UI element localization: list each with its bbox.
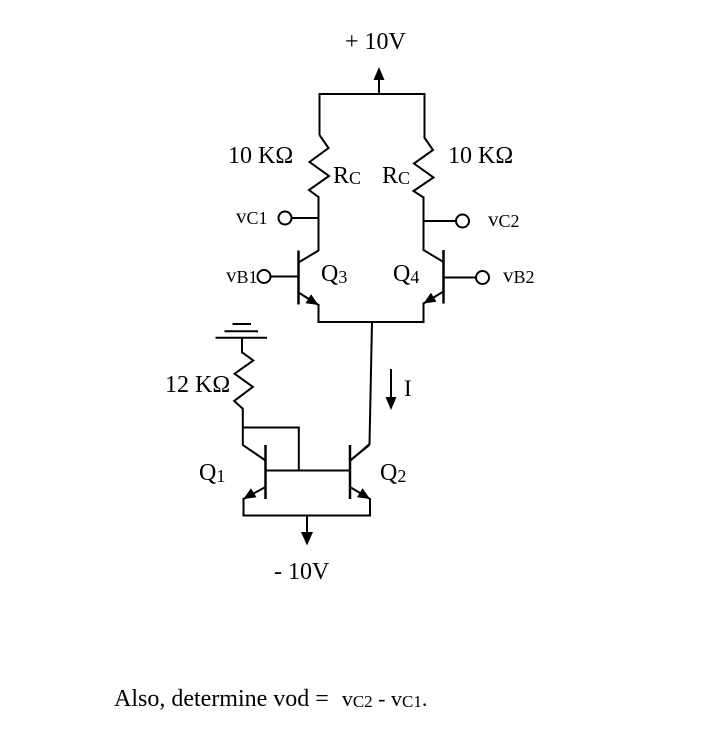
svg-text:Q3: Q3	[321, 261, 347, 287]
label Q3	[321, 261, 347, 287]
wire left collector drop	[319, 93, 321, 135]
label 12 KOhm	[165, 372, 230, 398]
transistor Q3	[299, 251, 319, 323]
label vC2	[488, 207, 520, 231]
terminal vC1 circle	[279, 212, 292, 225]
svg-text:Q2: Q2	[380, 460, 406, 486]
terminal vC2 stub	[424, 220, 457, 222]
supply arrow down -10V	[301, 516, 313, 546]
svg-text:Also, determine vod = vC2 - vC: Also, determine vod = vC2 - vC1.	[114, 686, 427, 712]
svg-text:10 KΩ: 10 KΩ	[228, 143, 293, 169]
ground	[216, 324, 268, 354]
svg-text:Q1: Q1	[199, 460, 225, 486]
wire base rail	[266, 470, 351, 472]
svg-text:I: I	[404, 376, 412, 401]
wire bottom rail	[243, 515, 372, 517]
transistor Q1	[244, 445, 266, 517]
svg-text:RC: RC	[382, 163, 410, 189]
wire left collector mid	[318, 196, 320, 251]
label Q2	[380, 460, 406, 486]
svg-text:- 10V: - 10V	[274, 559, 330, 585]
svg-text:vB2: vB2	[503, 263, 535, 287]
label Q1	[199, 460, 225, 486]
label 10 KOhm left	[228, 143, 293, 169]
label 10 KOhm right	[448, 143, 513, 169]
resistor RC left 10K	[309, 135, 329, 197]
svg-text:10 KΩ: 10 KΩ	[448, 143, 513, 169]
terminal vC1 stub	[292, 217, 319, 219]
supply label +10V	[345, 29, 407, 55]
label -10V	[274, 559, 330, 585]
resistor 12K	[234, 353, 253, 409]
supply arrow up	[374, 67, 385, 95]
wire tail vertical	[351, 322, 373, 461]
svg-text:+ 10V: + 10V	[345, 29, 407, 55]
caption	[114, 686, 427, 712]
terminal vC2 circle	[456, 215, 469, 228]
terminal vB1 stub	[271, 276, 299, 278]
label I	[404, 376, 412, 401]
label Q4	[393, 261, 419, 287]
current arrow I	[386, 369, 397, 410]
svg-text:vB1: vB1	[226, 263, 258, 287]
wire right collector drop	[424, 93, 426, 137]
label RC right	[382, 163, 410, 189]
wire top rail	[319, 93, 426, 95]
svg-text:vC1: vC1	[236, 204, 268, 228]
label vB2	[503, 263, 535, 287]
wire emitter rail	[318, 321, 425, 323]
wire jumper collector to bases	[243, 428, 299, 471]
svg-text:12 KΩ: 12 KΩ	[165, 372, 230, 398]
transistor Q4	[424, 250, 444, 322]
svg-text:Q4: Q4	[393, 261, 419, 287]
label RC left	[333, 163, 361, 189]
resistor RC right 10K	[414, 137, 434, 198]
label vC1	[236, 204, 268, 228]
wire resistor to Q1 collector	[243, 408, 266, 461]
terminal vB2 stub	[444, 277, 477, 279]
transistor Q2	[350, 445, 370, 517]
terminal vB2 circle	[476, 271, 489, 284]
svg-text:RC: RC	[333, 163, 361, 189]
terminal vB1 circle	[258, 270, 271, 283]
wire right collector mid	[423, 197, 425, 252]
svg-text:vC2: vC2	[488, 207, 520, 231]
label vB1	[226, 263, 258, 287]
